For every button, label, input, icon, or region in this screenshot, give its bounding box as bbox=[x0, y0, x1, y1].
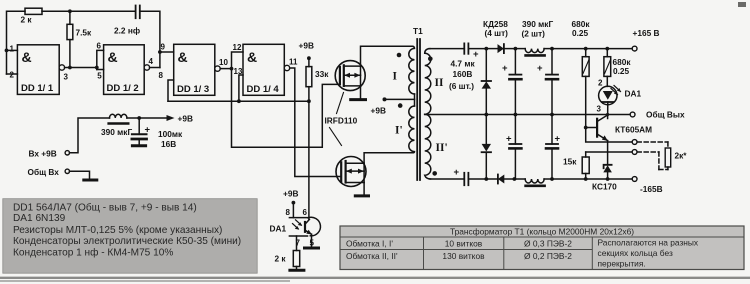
svg-text:II': II' bbox=[436, 142, 448, 154]
svg-text:8: 8 bbox=[159, 71, 164, 80]
svg-text:2 к: 2 к bbox=[21, 15, 33, 25]
node junction lower X bbox=[484, 177, 488, 181]
label 390 мкГ (2 шт) bbox=[522, 19, 554, 39]
transistor VT3 КТ605АМ bbox=[597, 115, 652, 141]
diode VD2 series upper bbox=[486, 44, 515, 53]
wire VT3 emitter down bbox=[607, 141, 609, 165]
svg-text:11: 11 bbox=[289, 58, 298, 67]
wire pin4 to node bbox=[150, 67, 160, 69]
light arrows into base bbox=[293, 220, 303, 230]
inductor L2 390мкГ lower bbox=[514, 179, 552, 186]
svg-text:&: & bbox=[22, 49, 32, 65]
gate DD1/2 bbox=[104, 45, 145, 95]
svg-text:2: 2 bbox=[10, 71, 15, 80]
svg-text:+9В: +9В bbox=[299, 41, 314, 51]
ground chassis bar VT1 bbox=[351, 98, 366, 101]
transistor VT2 IRFD110 lower bbox=[336, 157, 366, 187]
node junction zener bottom bbox=[606, 177, 610, 181]
wire pin11 to VT2 gate bbox=[290, 68, 342, 177]
svg-text:Т1: Т1 bbox=[413, 26, 423, 36]
pin 9 bbox=[160, 43, 174, 53]
node junction R2 bottom bbox=[68, 66, 72, 70]
svg-text:&: & bbox=[108, 49, 118, 65]
svg-text:+: + bbox=[555, 134, 561, 145]
wire -165 rail bbox=[552, 178, 632, 180]
svg-text:2: 2 bbox=[598, 79, 603, 88]
pin 13 loop bbox=[234, 67, 244, 101]
svg-text:КТ605АМ: КТ605АМ bbox=[615, 125, 652, 135]
pin 5 bbox=[97, 70, 104, 81]
svg-text:10: 10 bbox=[219, 58, 228, 67]
svg-text:5: 5 bbox=[97, 72, 102, 81]
svg-text:&: & bbox=[247, 49, 257, 65]
svg-text:Располагаются на разных: Располагаются на разных bbox=[598, 238, 699, 248]
svg-text:-165В: -165В bbox=[640, 184, 663, 194]
node junction pin13 on feedback wire bbox=[237, 99, 241, 103]
svg-text:1: 1 bbox=[10, 45, 15, 54]
svg-text:130 витков: 130 витков bbox=[442, 251, 485, 261]
wire VT2 source bbox=[363, 183, 365, 195]
svg-text:IRFD110: IRFD110 bbox=[325, 116, 358, 126]
wire VT2 drain to winding I' bbox=[364, 153, 412, 163]
svg-text:390 мкГ: 390 мкГ bbox=[101, 127, 132, 137]
gate DD1/3 bbox=[174, 44, 215, 95]
svg-text:I': I' bbox=[395, 125, 403, 137]
wire top rail left segment bbox=[7, 11, 26, 74]
svg-text:3: 3 bbox=[64, 73, 69, 82]
wire 15k top to terminal T2 bbox=[586, 151, 633, 153]
output bubble DD1/4 pin 11 bbox=[284, 58, 298, 71]
svg-text:Обмотка II, II': Обмотка II, II' bbox=[346, 251, 398, 261]
node junction pin10 bbox=[230, 67, 234, 71]
svg-text:Конденсатор 1 нф - КМ4-М75 10%: Конденсатор 1 нф - КМ4-М75 10% bbox=[13, 247, 173, 259]
inductor L1 390мкГ upper bbox=[515, 49, 552, 56]
wire C5 to lower X bbox=[468, 178, 486, 180]
svg-text:10 витков: 10 витков bbox=[445, 239, 483, 249]
diode VD3 shunt lower bbox=[482, 115, 491, 180]
wire center tap primary bbox=[371, 94, 415, 116]
ground chassis bar R8 bbox=[290, 269, 304, 272]
node junction L2 right bbox=[550, 177, 554, 181]
capacitor C3 filter upper (x=515.4) bbox=[502, 49, 521, 115]
terminal T1 bbox=[632, 140, 637, 145]
capacitor C1 2.2нф bbox=[114, 6, 140, 36]
winding II' bbox=[425, 114, 448, 179]
wire secondary top to C2 bbox=[429, 48, 464, 50]
node junction lower L2 left bbox=[513, 177, 517, 181]
ground chassis bar input bbox=[84, 179, 97, 182]
winding I bbox=[393, 46, 415, 94]
wire arrow +9В out bbox=[139, 114, 193, 124]
wire tie 5-6 bbox=[97, 50, 104, 69]
wire pin 8 bbox=[292, 203, 294, 218]
wire base node down to terminal T1 bbox=[586, 128, 633, 143]
resistor R2 7.5к bbox=[67, 11, 92, 67]
ground chassis bar C8 bbox=[132, 144, 145, 147]
svg-text:I: I bbox=[393, 71, 398, 83]
wire cap to node bbox=[468, 48, 486, 50]
svg-text:(6 шт.): (6 шт.) bbox=[449, 81, 474, 91]
pin 2 bbox=[7, 71, 18, 80]
node junction 33k bottom bbox=[307, 99, 311, 103]
svg-text:КС170: КС170 bbox=[592, 182, 617, 192]
node junction upper X bbox=[484, 47, 488, 51]
wire winding II' to C5 bbox=[430, 178, 464, 180]
svg-text:16В: 16В bbox=[161, 139, 176, 149]
resistor R3 33к bbox=[306, 58, 329, 101]
ground chassis bar VT2 bbox=[355, 194, 368, 197]
svg-text:6: 6 bbox=[97, 42, 102, 51]
svg-text:Ø 0,2 ПЭВ-2: Ø 0,2 ПЭВ-2 bbox=[524, 251, 572, 261]
svg-text:DA1: DA1 bbox=[270, 224, 287, 234]
node junction filter bbox=[137, 116, 141, 120]
svg-text:2.2 нф: 2.2 нф bbox=[114, 26, 140, 36]
svg-text:Конденсаторы электролитические: Конденсаторы электролитические К50-35 (м… bbox=[13, 236, 241, 247]
svg-text:6: 6 bbox=[303, 208, 308, 217]
wire LED cathode down across rail to VT3 collector bbox=[607, 102, 609, 119]
node junction L1 right bbox=[550, 47, 554, 51]
node junction L1 left bbox=[514, 47, 518, 51]
svg-text:160В: 160В bbox=[453, 69, 473, 79]
svg-text:100мк: 100мк bbox=[158, 129, 183, 139]
capacitor C2 4.7мк series upper bbox=[464, 43, 479, 60]
resistor R4 680к 0.25 bbox=[572, 19, 591, 128]
terminal +165В bbox=[632, 28, 659, 51]
optocoupler DA1 LED (pins 2,3) bbox=[597, 79, 642, 114]
svg-text:15к: 15к bbox=[563, 157, 577, 167]
phototransistor body bbox=[289, 217, 320, 246]
svg-text:+: + bbox=[502, 63, 508, 74]
node junction pin1 bbox=[5, 49, 9, 53]
notes panel bbox=[3, 199, 257, 274]
svg-text:DA1: DA1 bbox=[625, 89, 642, 99]
terminal Общ Вых bbox=[630, 110, 685, 120]
svg-text:Вх +9В: Вх +9В bbox=[29, 149, 57, 159]
node junction pin9 bbox=[158, 50, 162, 54]
node junctions on common rail bbox=[484, 113, 488, 117]
gate DD1/4 bbox=[243, 44, 284, 95]
zener VD5 КС170 bbox=[592, 165, 617, 192]
svg-text:перекрытия.: перекрытия. bbox=[598, 259, 646, 269]
svg-text:Общ Вх: Общ Вх bbox=[28, 167, 60, 177]
node junction 7.5k top bbox=[68, 9, 72, 13]
svg-text:0.25: 0.25 bbox=[613, 66, 630, 76]
svg-text:4: 4 bbox=[149, 57, 154, 66]
capacitor C4 filter upper (x=552) bbox=[537, 49, 558, 115]
wire top rail mid segment bbox=[42, 10, 135, 12]
winding I' bbox=[395, 103, 415, 153]
output bubble DD1/2 pin 4 bbox=[144, 57, 153, 70]
svg-text:DD 1/ 3: DD 1/ 3 bbox=[177, 84, 209, 95]
power flag +9В at 33k bbox=[299, 41, 314, 61]
svg-text:Трансформатор Т1 (кольцо М2000: Трансформатор Т1 (кольцо М2000НМ 20х12х6… bbox=[450, 227, 634, 237]
svg-text:Ø 0,3 ПЭВ-2: Ø 0,3 ПЭВ-2 bbox=[524, 239, 572, 249]
transistor VT1 IRFD110 upper bbox=[335, 61, 365, 91]
svg-text:DD 1/ 1: DD 1/ 1 bbox=[21, 83, 54, 94]
svg-text:(4 шт): (4 шт) bbox=[485, 28, 509, 38]
svg-text:+9В: +9В bbox=[283, 189, 298, 199]
wire pin 7 bbox=[296, 236, 298, 251]
output bubble DD1/1 pin 3 bbox=[59, 65, 68, 82]
pin 1 bbox=[7, 45, 18, 54]
svg-text:DD1 564ЛА7 (Общ - выв 7, +9 -: DD1 564ЛА7 (Общ - выв 7, +9 - выв 14) bbox=[13, 202, 197, 214]
wire feedback node (pins 8,13 to 33k and DA1) bbox=[168, 100, 309, 102]
wire pin10 node up to pin 12 bbox=[232, 52, 244, 69]
svg-text:DA1 6N139: DA1 6N139 bbox=[13, 213, 66, 224]
node junction base bbox=[584, 126, 588, 130]
svg-text:8: 8 bbox=[286, 208, 291, 217]
svg-text:+9В: +9В bbox=[371, 106, 386, 116]
node junction 680k R4 top bbox=[584, 47, 588, 51]
capacitor C6 filter lower (x=515.4) bbox=[506, 115, 521, 180]
diode VD4 series lower bbox=[486, 175, 514, 184]
svg-text:Общ Вых: Общ Вых bbox=[646, 110, 685, 120]
gate DD1/1 bbox=[17, 45, 59, 95]
output bubble DD1/3 pin 10 bbox=[215, 58, 229, 71]
svg-text:+165 В: +165 В bbox=[633, 28, 660, 38]
svg-text:+9В: +9В bbox=[178, 114, 193, 124]
svg-text:Обмотка I, I': Обмотка I, I' bbox=[346, 239, 393, 249]
resistor R8 2к bbox=[275, 251, 300, 270]
label КД258 (4 шт) bbox=[483, 19, 508, 38]
svg-text:4.7 мк: 4.7 мк bbox=[451, 59, 476, 69]
wire pin3 to DD1/2 inputs bbox=[65, 67, 97, 69]
resistor R7 2к* external (dashed) bbox=[637, 142, 668, 170]
svg-text:12: 12 bbox=[233, 43, 242, 52]
svg-text:13: 13 bbox=[234, 67, 243, 76]
svg-text:Резисторы МЛТ-0,125 5% (кроме: Резисторы МЛТ-0,125 5% (кроме указанных) bbox=[13, 225, 222, 236]
terminal -165В bbox=[632, 177, 662, 194]
node junction 680k R5 top bbox=[605, 47, 609, 51]
svg-text:+: + bbox=[537, 63, 543, 74]
wire base node bbox=[586, 127, 597, 129]
wire Общ Вх to chassis bbox=[70, 171, 90, 178]
label IRFD110 with callouts bbox=[325, 93, 358, 146]
terminal Вх +9В bbox=[29, 149, 70, 159]
svg-text:2 к: 2 к bbox=[275, 254, 287, 264]
svg-text:5: 5 bbox=[310, 239, 315, 248]
power flag +9В at DA1 bbox=[283, 189, 298, 205]
node junction pins 5-6 tie bbox=[95, 66, 99, 70]
svg-text:DD 1/ 2: DD 1/ 2 bbox=[107, 83, 139, 94]
resistor R1 2к bbox=[21, 8, 43, 24]
svg-text:&: & bbox=[178, 49, 188, 65]
capacitor C8 100мк 16В bbox=[132, 118, 183, 149]
capacitor C7 filter lower (x=552) bbox=[546, 115, 561, 180]
svg-text:390 мкГ: 390 мкГ bbox=[522, 19, 553, 29]
wire pin10 to node bbox=[220, 68, 231, 70]
svg-text:(2 шт): (2 шт) bbox=[522, 29, 546, 39]
pin labels DA1 bbox=[270, 208, 315, 248]
ground chassis bar pin 5 bbox=[305, 247, 319, 250]
wire +165 rail bbox=[552, 48, 632, 50]
svg-text:7.5к: 7.5к bbox=[76, 28, 93, 38]
page rule line bbox=[0, 277, 750, 279]
svg-text:секциях кольца без: секциях кольца без bbox=[598, 248, 673, 258]
wire top rail right segment down to node bbox=[140, 11, 160, 67]
inductor L3 390мкГ bbox=[101, 114, 139, 137]
node junction 15k bottom bbox=[584, 177, 588, 181]
transformer data table bbox=[340, 226, 744, 270]
capacitor C5 series lower bbox=[454, 167, 469, 185]
svg-text:+: + bbox=[506, 134, 512, 145]
terminal T2 bbox=[632, 150, 637, 155]
svg-text:DD 1/ 4: DD 1/ 4 bbox=[247, 84, 280, 95]
svg-text:+: + bbox=[145, 125, 151, 136]
wire VT1 drain to winding I bbox=[361, 46, 413, 66]
wire common rail (Общ) bbox=[425, 114, 631, 116]
wire pin10 node down (route to VT1 gate) bbox=[232, 69, 340, 148]
svg-text:3: 3 bbox=[597, 105, 602, 114]
wire VT1 source bbox=[360, 86, 362, 99]
svg-text:II: II bbox=[435, 77, 444, 89]
winding II bbox=[425, 49, 444, 115]
svg-text:+: + bbox=[454, 167, 460, 178]
svg-text:0.25: 0.25 bbox=[572, 28, 589, 38]
terminal Общ Вх bbox=[28, 167, 70, 177]
wire 33k node down to DA1 pin 6 bbox=[308, 101, 310, 219]
transformer core bbox=[417, 39, 420, 180]
diode VD1 shunt upper bbox=[482, 49, 491, 115]
svg-text:2к*: 2к* bbox=[675, 151, 688, 161]
svg-text:9: 9 bbox=[161, 43, 166, 52]
pin 8 loop bbox=[159, 71, 174, 101]
wire input up to filter bbox=[70, 118, 110, 153]
resistor R5 680к 0.25 bbox=[604, 49, 631, 87]
resistor R6 15к bbox=[563, 152, 589, 179]
svg-text:33к: 33к bbox=[315, 69, 329, 79]
label 4.7мк 160В (6 шт.) bbox=[449, 59, 475, 92]
